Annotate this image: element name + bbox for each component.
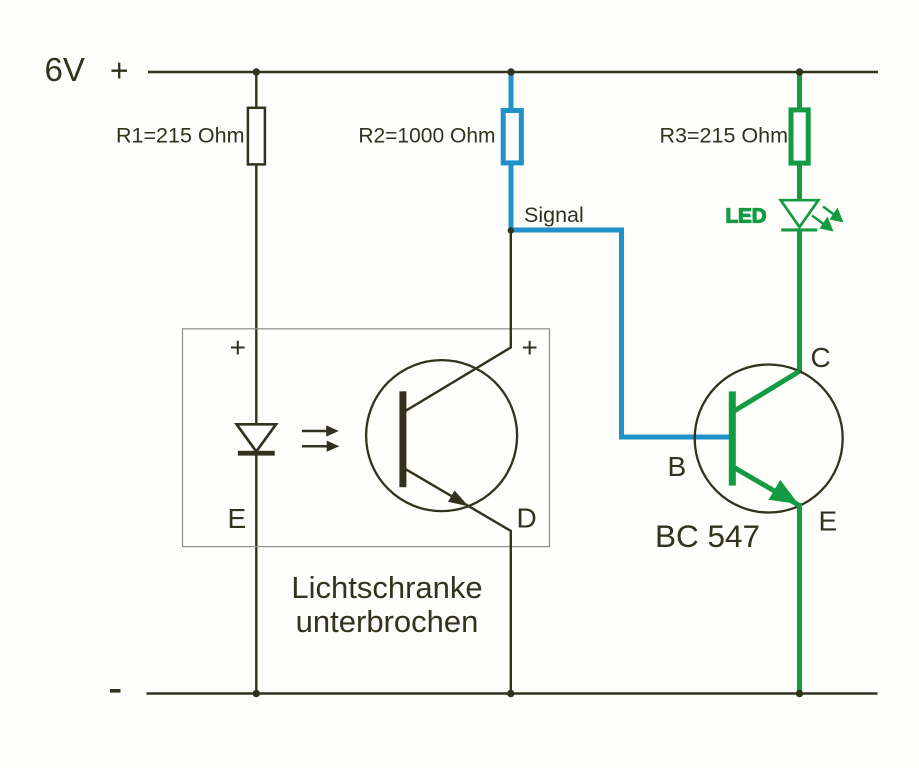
optocoupler box bbox=[183, 329, 550, 547]
phototransistor collector wire to signal node bbox=[405, 231, 511, 411]
phototransistor emitter arrowhead bbox=[448, 491, 469, 507]
svg-text:R1=215 Ohm: R1=215 Ohm bbox=[116, 124, 244, 148]
wire BC547 emitter to ground rail (green) bbox=[797, 503, 802, 694]
light emission arrow lower bbox=[302, 441, 339, 452]
junction top rail left bbox=[253, 68, 260, 75]
wire right branch rail to LED (green) bbox=[797, 72, 802, 202]
LED light arrow lower bbox=[812, 216, 834, 232]
svg-text:+: + bbox=[230, 332, 246, 363]
svg-text:E: E bbox=[228, 503, 247, 534]
svg-text:+: + bbox=[110, 53, 129, 89]
wire photodiode cathode to ground rail bbox=[255, 453, 257, 694]
junction top rail right bbox=[796, 68, 803, 75]
photodiode D2 cathode bar bbox=[238, 451, 275, 456]
transistor Q2 emitter diagonal (green) bbox=[735, 468, 799, 505]
svg-text:R3=215 Ohm: R3=215 Ohm bbox=[660, 124, 788, 148]
svg-text:Signal: Signal bbox=[524, 203, 584, 227]
phototransistor emitter wire to ground rail bbox=[405, 469, 511, 694]
svg-text:B: B bbox=[668, 451, 687, 482]
svg-text:R2=1000 Ohm: R2=1000 Ohm bbox=[358, 125, 495, 148]
svg-text:6V: 6V bbox=[45, 51, 85, 88]
wire left branch R1 to photodiode bbox=[255, 72, 257, 425]
svg-text:Lichtschranke: Lichtschranke bbox=[291, 570, 482, 605]
transistor Q2 BC547 circle bbox=[695, 365, 843, 513]
light emission arrow upper bbox=[302, 425, 339, 436]
phototransistor Q1 circle bbox=[366, 360, 517, 511]
resistor R3 bbox=[791, 110, 808, 163]
phototransistor Q1 base bar bbox=[399, 391, 406, 487]
svg-text:LED: LED bbox=[726, 205, 767, 228]
LED light arrow upper bbox=[823, 207, 844, 223]
transistor Q2 base bar (green) bbox=[729, 391, 736, 485]
junction bottom rail middle bbox=[507, 690, 514, 697]
wire LED cathode to BC547 collector (green) bbox=[797, 230, 802, 372]
junction bottom rail right bbox=[796, 690, 803, 697]
LED D1 cathode bar bbox=[781, 228, 817, 231]
LED D1 triangle bbox=[781, 200, 819, 227]
wire middle branch rail to signal node (blue) bbox=[509, 72, 514, 230]
photodiode D2 triangle bbox=[237, 424, 276, 451]
resistor R1 bbox=[248, 108, 265, 165]
node minus terminal label bbox=[110, 689, 121, 693]
junction signal node bbox=[508, 227, 514, 233]
svg-text:D: D bbox=[517, 503, 537, 534]
wire signal to BC547 base (blue) bbox=[509, 230, 734, 437]
svg-text:E: E bbox=[819, 506, 838, 537]
wire bottom ground rail bbox=[147, 692, 878, 694]
svg-text:+: + bbox=[522, 332, 538, 363]
svg-text:unterbrochen: unterbrochen bbox=[296, 604, 479, 639]
resistor R2 bbox=[503, 111, 521, 163]
svg-text:C: C bbox=[811, 342, 831, 373]
wire top +6V rail bbox=[148, 71, 878, 73]
transistor Q2 collector diagonal (green) bbox=[735, 371, 800, 411]
svg-text:BC 547: BC 547 bbox=[655, 518, 760, 554]
junction top rail middle bbox=[507, 68, 514, 75]
transistor Q2 emitter arrowhead (green) bbox=[769, 480, 799, 504]
junction bottom rail left bbox=[253, 690, 260, 697]
